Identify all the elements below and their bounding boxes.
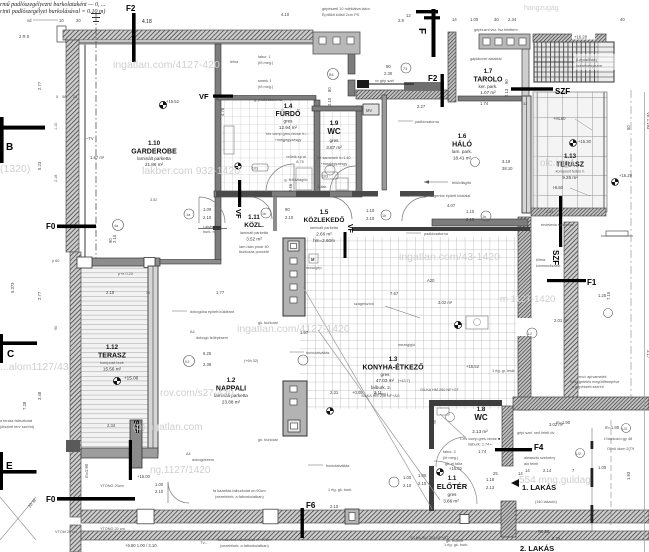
door arc eloter to wc [436, 437, 466, 467]
hatched band north of halo [356, 90, 448, 99]
room 1.5 KOZLEKEDO [304, 209, 345, 243]
svg-text:4.07: 4.07 [447, 203, 456, 208]
dark dash column bottom right [591, 428, 593, 532]
svg-text:az idegenbe épített közfalat: az idegenbe épített közfalat [424, 194, 471, 198]
dashed line bottom right [610, 420, 612, 528]
svg-text:1.77: 1.77 [216, 290, 225, 295]
svg-text:2.10: 2.10 [327, 97, 332, 106]
svg-text:40: 40 [620, 17, 625, 22]
wc/eloter left wall [429, 400, 434, 449]
svg-text:73: 73 [403, 67, 407, 71]
svg-text:...alom1127/43: ...alom1127/43 [0, 361, 69, 373]
terasz 1.12 deck lines [81, 266, 148, 454]
terasz 1.12 bottom dark band [81, 448, 158, 458]
kozl partition walls [273, 197, 277, 231]
svg-text:554 mng.guldag: 554 mng.guldag [519, 475, 591, 486]
bottom wall dark pillar [345, 509, 359, 524]
corridor north wall segments [216, 191, 272, 197]
svg-text:hangzugág: hangzugág [524, 5, 559, 12]
terasz 1.13 left railing ticks [533, 92, 539, 212]
svg-text:2.10: 2.10 [112, 234, 117, 243]
cross X bottom left [0, 497, 36, 540]
eloter right lower hatched wall [501, 501, 516, 537]
svg-text:vd: vd [27, 18, 32, 23]
svg-text:gépészeti 10 mléklátva lakor: gépészeti 10 mléklátva lakor [322, 7, 371, 11]
svg-text:1.00: 1.00 [155, 482, 164, 487]
svg-text:1-es vomp.gres.vecse ■: 1-es vomp.gres.vecse ■ [460, 437, 501, 441]
svg-text:(fé meg.): (fé meg.) [443, 456, 459, 460]
svg-text:aleiasztó szekrény: aleiasztó szekrény [524, 456, 555, 460]
svg-text:B: B [6, 142, 13, 153]
svg-text:2.30: 2.30 [384, 71, 393, 76]
svg-text:18.41 m²: 18.41 m² [453, 156, 472, 161]
svg-text:reßelk sp.al: reßelk sp.al [286, 155, 306, 159]
svg-text:2.18: 2.18 [54, 175, 58, 182]
svg-text:falburk: 1.74 ▪: falburk: 1.74 ▪ [468, 443, 492, 447]
svg-text:+15.00: +15.00 [137, 474, 151, 479]
apartment label 1.LAKAS [511, 479, 556, 492]
svg-text:p 60: p 60 [52, 259, 59, 263]
svg-text:1.00: 1.00 [403, 475, 412, 480]
svg-text:K1: K1 [185, 360, 190, 364]
svg-text:U3: U3 [622, 427, 627, 431]
svg-text:F4: F4 [534, 443, 544, 452]
svg-text:TERASZ: TERASZ [98, 353, 127, 360]
svg-text:1.74: 1.74 [480, 101, 489, 106]
svg-text:F0: F0 [46, 495, 56, 504]
dark duct box north of halo [404, 82, 444, 91]
kitchen floor tile grid [300, 237, 518, 409]
svg-text:3.02 m²: 3.02 m² [438, 300, 453, 305]
svg-text:F2: F2 [126, 4, 136, 13]
svg-text:m=1:90: m=1:90 [84, 463, 89, 478]
section marker F1 right [547, 278, 597, 287]
stair label [574, 54, 620, 70]
svg-text:1.2: 1.2 [227, 377, 236, 384]
svg-text:2.46: 2.46 [288, 183, 293, 192]
svg-text:2.13: 2.13 [486, 485, 495, 490]
svg-text:1.11: 1.11 [248, 214, 260, 221]
door arc terasz nappali [168, 482, 189, 503]
svg-text:HL50: HL50 [553, 185, 564, 190]
terasz 1.13 deck grid [533, 92, 607, 212]
tarolo right window band [522, 49, 529, 96]
room 1.11 KOZL [239, 214, 269, 254]
svg-text:2.27: 2.27 [417, 104, 426, 109]
svg-text:38.10: 38.10 [502, 166, 513, 171]
svg-text:szagelszívó: szagelszívó [354, 302, 374, 306]
svg-text:F2: F2 [428, 74, 438, 83]
tarolo left hatched wall [448, 32, 456, 102]
svg-text:rmű padlószegélyezni burkolata: rmű padlószegélyezni burkolataként — 0, … [0, 1, 106, 8]
svg-text:(Lépcsőház): (Lépcsőház) [576, 58, 598, 62]
svg-text:1.87 m²: 1.87 m² [90, 155, 105, 160]
svg-text:F0: F0 [46, 222, 56, 231]
top-left corner detail box [57, 26, 66, 42]
property line right [630, 90, 632, 400]
MV duct box [363, 104, 379, 115]
furniture block upper (wardrobe column) [283, 238, 305, 316]
wc 1.8 top wall [429, 400, 502, 406]
room 1.10 GARDEROBE [131, 140, 177, 167]
bottom wall window gap 2 [263, 509, 278, 524]
top window block garderobe/hall [313, 32, 360, 54]
svg-text:6.25: 6.25 [203, 351, 212, 356]
svg-text:+megjegyzésgy: +megjegyzésgy [275, 138, 302, 142]
svg-text:+15.06: +15.06 [124, 376, 139, 381]
svg-text:gres: gres [284, 119, 294, 124]
nappali lower window band [130, 420, 142, 468]
svg-text:5.373: 5.373 [10, 282, 15, 293]
section marker VF kozl vertical [234, 180, 243, 219]
section marker VF top [199, 92, 233, 101]
duct arrow wedge [357, 80, 369, 88]
svg-text:rov.com/s27-420: rov.com/s27-420 [160, 388, 234, 399]
svg-text:(+43.7): (+43.7) [398, 379, 411, 383]
svg-text:1.18: 1.18 [486, 477, 495, 482]
svg-text:ingatlan.com/43-1420: ingatlan.com/43-1420 [399, 251, 500, 263]
svg-text:SILKA HM 250 NF+GT: SILKA HM 250 NF+GT [410, 536, 449, 540]
svg-text:4.18: 4.18 [142, 19, 152, 25]
svg-text:2. LAKÁS: 2. LAKÁS [520, 544, 554, 552]
svg-text:rinti padlószegélyei burkolásá: rinti padlószegélyei burkolásával = 0.10… [0, 8, 105, 15]
svg-text:2.77: 2.77 [37, 81, 42, 90]
svg-text:ELŐTÉR: ELŐTÉR [437, 482, 468, 491]
terasz 1.12 top wall [81, 258, 160, 266]
right inner vertical hatched wall [518, 217, 531, 410]
svg-text:1 rtg. gk. burk.: 1 rtg. gk. burk. [444, 543, 468, 547]
svg-text:GILKA HM 250 NF+GT: GILKA HM 250 NF+GT [420, 388, 460, 392]
survey marker terasz113b [612, 179, 619, 186]
svg-text:14: 14 [452, 17, 457, 22]
svg-text:2.34: 2.34 [546, 210, 553, 214]
right outer vertical hatched wall [564, 222, 578, 410]
svg-text:olc.ing4: olc.ing4 [540, 158, 575, 169]
section marker F0 lower-left [46, 495, 135, 504]
svg-text:78: 78 [432, 420, 437, 425]
svg-text:g. padlócsatorna: g. padlócsatorna [254, 98, 283, 102]
svg-text:12: 12 [406, 13, 411, 18]
svg-text:1.67: 1.67 [300, 330, 309, 335]
svg-text:Építőkő külső 2cm PS: Építőkő külső 2cm PS [322, 12, 360, 17]
svg-text:ker. park.: ker. park. [479, 84, 498, 89]
bottom long hatched wall 1 [81, 510, 649, 523]
svg-text:gáplácmei aktaktál: gáplácmei aktaktál [470, 57, 502, 61]
svg-text:Oznü idom 2(T9: Oznü idom 2(T9 [607, 447, 634, 451]
room 1.7 TAROLO [473, 68, 503, 95]
svg-text:érvielevis szóbeszé: érvielevis szóbeszé [541, 223, 574, 227]
svg-text:1.00: 1.00 [598, 465, 607, 470]
svg-text:1.10: 1.10 [148, 140, 161, 147]
svg-text:FÜRDŐ: FÜRDŐ [276, 109, 301, 118]
svg-text:burkolatváltás: burkolatváltás [306, 351, 330, 355]
svg-text:(140 lakáció): (140 lakáció) [535, 500, 557, 504]
dark corner block left wall [66, 440, 80, 452]
svg-text:7.15: 7.15 [606, 291, 611, 300]
svg-text:VTOld 29 cm: VTOld 29 cm [55, 530, 77, 534]
section marker F2 mid [428, 74, 444, 107]
svg-text:(vezetékek: a falburkolatban): (vezetékek: a falburkolatban) [215, 495, 264, 499]
survey marker eloter [437, 469, 444, 476]
svg-text:fa kazettás falburkolat m=90cm: fa kazettás falburkolat m=90cm [218, 538, 271, 542]
svg-text:(fő meg.): (fő meg.) [258, 85, 274, 89]
svg-text:TV–: TV– [200, 541, 208, 545]
svg-text:2.10: 2.10 [203, 215, 212, 220]
axis line top ticks [91, 13, 101, 15]
svg-text:lakber.com 932-1420: lakber.com 932-1420 [142, 165, 240, 177]
svg-text:gres: gres [330, 138, 340, 143]
svg-text:padlócsatorna: padlócsatorna [415, 120, 440, 124]
svg-text:fabur. 1: fabur. 1 [258, 55, 271, 59]
svg-text:KÖZLEKEDŐ: KÖZLEKEDŐ [304, 215, 345, 224]
stairwell treads top right [534, 42, 598, 82]
svg-text:laminált parketta: laminált parketta [310, 226, 339, 230]
room 1.8 WC [460, 406, 501, 447]
svg-text:103: 103 [322, 175, 328, 179]
svg-text:10: 10 [59, 18, 64, 23]
svg-text:2.34: 2.34 [107, 423, 116, 428]
svg-text:2.10: 2.10 [285, 215, 294, 220]
svg-text:12.94 m²: 12.94 m² [279, 125, 298, 130]
section marker F6 bottom [301, 501, 316, 538]
svg-text:gk. burkolat: gk. burkolat [258, 321, 279, 325]
svg-text:gk. burkolat: gk. burkolat [258, 438, 279, 442]
svg-text:50: 50 [626, 125, 631, 130]
svg-text:+15.52: +15.52 [166, 99, 180, 104]
svg-text:B4: B4 [329, 73, 334, 77]
terasz113 bottom hatched sill [531, 208, 606, 216]
halo/terasz window wall [522, 96, 531, 213]
svg-text:7.67: 7.67 [390, 291, 399, 296]
room 1.12 TERASZ [98, 344, 139, 381]
top-right hatched band above stairs [533, 34, 606, 42]
svg-text:103: 103 [252, 167, 258, 171]
svg-text:1.5: 1.5 [320, 209, 329, 216]
svg-text:C: C [7, 349, 14, 360]
svg-text:MV: MV [366, 108, 372, 113]
svg-text:4.78: 4.78 [220, 107, 225, 116]
section marker SZF terasz12 vertical [129, 420, 139, 480]
room 1.1 ELOTER [437, 475, 468, 504]
svg-text:1.1: 1.1 [448, 475, 457, 482]
svg-text:+5.80 1.00 / 3.10: +5.80 1.00 / 3.10 [125, 543, 157, 548]
grid marker C left [0, 334, 37, 363]
svg-text:mvcí apívamelek: mvcí apívamelek [578, 375, 607, 379]
svg-text:2.11: 2.11 [374, 390, 383, 395]
svg-text:(fő meg.): (fő meg.) [258, 61, 274, 65]
svg-text:ingatlan.com/4127-420: ingatlan.com/4127-420 [113, 59, 220, 71]
tarolo bottom wall [458, 96, 528, 101]
svg-text:(1320): (1320) [0, 163, 30, 175]
svg-text:2.66 m²: 2.66 m² [316, 232, 332, 237]
svg-text:m 1127-1420: m 1127-1420 [500, 294, 555, 305]
svg-text:(+6h.32): (+6h.32) [244, 359, 259, 363]
svg-text:2.34: 2.34 [508, 17, 517, 22]
svg-text:SZF: SZF [555, 87, 570, 96]
svg-text:KONYHA-ÉTKEZŐ: KONYHA-ÉTKEZŐ [362, 363, 424, 372]
svg-text:lam.nlán pínar 40: lam.nlán pínar 40 [239, 245, 268, 249]
svg-text:2.13 m²: 2.13 m² [472, 429, 488, 434]
svg-text:8.75: 8.75 [296, 160, 303, 164]
left wall lowest hatched piece [70, 525, 81, 552]
svg-text:felülvilágító: felülvilágító [452, 181, 471, 185]
section marker VF kozlekedo vertical [344, 224, 354, 258]
svg-text:1b: 1b [482, 215, 486, 219]
svg-text:3.52 m²: 3.52 m² [246, 237, 262, 242]
svg-text:TAROLO: TAROLO [473, 77, 503, 84]
svg-text:1.09: 1.09 [203, 207, 212, 212]
svg-text:1.10: 1.10 [366, 208, 375, 213]
svg-text:2 R 8: 2 R 8 [19, 34, 30, 39]
svg-text:vc gép szel: vc gép szel [375, 79, 394, 83]
svg-text:g. felülvilágító: g. felülvilágító [284, 178, 307, 182]
door arc wc1.9 [330, 197, 352, 219]
survey marker terasz112 [113, 377, 120, 384]
svg-text:14: 14 [226, 96, 230, 100]
wc 1.8 right hatched wall [502, 406, 513, 466]
svg-text:+15.52: +15.52 [466, 364, 480, 369]
svg-text:F: F [416, 28, 427, 34]
svg-text:gépi szel. seő feleti dv: gépi szel. seő feleti dv [517, 431, 554, 435]
svg-text:fa kazettás falburkolat m=90cm: fa kazettás falburkolat m=90cm [213, 489, 266, 493]
svg-text:3.48: 3.48 [37, 391, 42, 400]
svg-text:aló feleti: aló feleti [524, 462, 538, 466]
room 1.2 NAPPALI [214, 377, 248, 405]
bath fixtures [224, 126, 234, 154]
svg-text:+0.05: +0.05 [352, 390, 363, 395]
left exterior wall hatched [66, 40, 79, 252]
svg-text:30: 30 [494, 17, 499, 22]
top wall inner line [78, 42, 352, 45]
svg-text:(díszlett terv szerint): (díszlett terv szerint) [0, 425, 35, 429]
svg-text:9.26 m²: 9.26 m² [562, 175, 578, 180]
svg-text:1.7: 1.7 [484, 68, 493, 75]
svg-text:t.Nszkozó=gy 48: t.Nszkozó=gy 48 [604, 437, 632, 441]
wc 1.9 tile grid [320, 112, 356, 192]
svg-text:3.52: 3.52 [150, 198, 157, 202]
svg-text:25: 25 [493, 471, 498, 476]
svg-text:R0.58: R0.58 [538, 529, 550, 534]
svg-text:A4: A4 [190, 330, 195, 334]
svg-text:+16.28: +16.28 [574, 35, 588, 40]
svg-text:fel samonek h=1.40: fel samonek h=1.40 [317, 156, 350, 160]
svg-text:7.28: 7.28 [22, 401, 27, 410]
svg-text:mosógép: mosógép [306, 266, 322, 270]
svg-text:YTONG 20 cm: YTONG 20 cm [100, 527, 125, 531]
svg-text:VF: VF [234, 209, 243, 219]
svg-text:burkolatváltás: burkolatváltás [326, 464, 350, 468]
svg-text:1.93: 1.93 [626, 471, 631, 480]
balcony step right [606, 231, 628, 236]
svg-text:VF: VF [199, 92, 209, 101]
svg-text:1 rtg. gr. lesik: 1 rtg. gr. lesik [492, 369, 515, 373]
svg-text:VF: VF [346, 224, 353, 234]
axis dash-dot line left [95, 14, 97, 258]
section marker SZF top-right [511, 87, 570, 96]
sheet edge line right [644, 92, 646, 552]
svg-text:hm=2.60m: hm=2.60m [313, 238, 335, 243]
svg-text:1.00: 1.00 [470, 17, 479, 22]
svg-text:smerk 1: smerk 1 [258, 79, 272, 83]
shaft wall right of wc19 [382, 95, 387, 190]
svg-text:dobogóseem: dobogóseem [192, 458, 214, 462]
room 1.9 WC [317, 120, 350, 189]
svg-text:1.00: 1.00 [418, 473, 427, 478]
svg-text:lam. park.: lam. park. [452, 149, 472, 154]
svg-text:5.23: 5.23 [37, 161, 42, 170]
svg-text:2.29: 2.29 [552, 536, 561, 541]
section marker F top-center [416, 9, 440, 57]
svg-text:+15.30: +15.30 [578, 139, 592, 144]
svg-text:U2: U2 [576, 452, 581, 456]
svg-text:3.86 m²: 3.86 m² [443, 499, 459, 504]
svg-text:30: 30 [146, 291, 150, 295]
left exterior wall lower hatched [70, 252, 81, 517]
room 1.4 FURDO [252, 103, 310, 192]
section marker F0 upper-left [46, 222, 96, 231]
svg-text:1b: 1b [382, 214, 386, 218]
eloter stair diagonal [303, 287, 432, 509]
svg-text:4.10: 4.10 [281, 12, 290, 17]
bottom wall window gap 1 [137, 509, 154, 524]
wc right wall [356, 106, 362, 192]
svg-text:28: 28 [73, 95, 77, 99]
svg-text:E: E [6, 461, 13, 472]
svg-text:mezsglgló: mezsglgló [398, 343, 415, 347]
stairwell mid landing lines [534, 46, 598, 48]
svg-text:A20: A20 [427, 278, 435, 283]
svg-text:90: 90 [504, 79, 509, 84]
svg-text:L2: L2 [528, 332, 532, 336]
svg-text:laminált parketta: laminált parketta [240, 231, 269, 235]
door arc eloter big [434, 461, 477, 504]
section marker F4 [495, 443, 544, 452]
svg-text:1.74: 1.74 [478, 449, 487, 454]
svg-text:padlócsatorna: padlócsatorna [424, 232, 449, 236]
svg-text:+15.02: +15.02 [449, 466, 463, 471]
svg-text:3.87 m²: 3.87 m² [326, 145, 342, 150]
svg-text:F1: F1 [587, 278, 597, 287]
svg-text:kimmenőszekr.: kimmenőszekr. [536, 264, 561, 268]
door arc halo [402, 197, 426, 221]
svg-text:2.10: 2.10 [466, 217, 475, 222]
svg-text:1.4: 1.4 [284, 103, 293, 110]
furniture block lower (kitchen column) [283, 381, 307, 436]
svg-text:+HL80: +HL80 [553, 116, 566, 121]
svg-text:23.88 m²: 23.88 m² [222, 400, 241, 405]
svg-text:klíma: klíma [536, 258, 546, 262]
svg-text:90: 90 [386, 64, 391, 69]
svg-text:fabur. 3: fabur. 3 [443, 450, 456, 454]
room 1.3 KONYHA-ETKEZO [362, 356, 424, 396]
stairwell side treads [598, 42, 614, 82]
svg-text:F6: F6 [306, 501, 316, 510]
svg-text:gres: gres [381, 372, 391, 377]
survey marker furdo [235, 163, 241, 169]
svg-text:A4: A4 [186, 452, 191, 456]
door arc wc19 bottom [330, 166, 356, 192]
svg-text:47.03 m²: 47.03 m² [376, 378, 395, 383]
svg-text:2.10: 2.10 [418, 481, 427, 486]
svg-text:M: M [311, 257, 315, 262]
svg-text:2.10: 2.10 [366, 216, 375, 221]
svg-text:(vezetékek: a falburkolatban): (vezetékek: a falburkolatban) [220, 544, 269, 548]
bathroom tile grid [222, 100, 314, 192]
top exterior wall hatched band [63, 30, 313, 40]
svg-text:1.9: 1.9 [330, 120, 339, 127]
svg-text:1.07 m²: 1.07 m² [480, 90, 496, 95]
svg-text:m=1.90: m=1.90 [605, 425, 620, 430]
